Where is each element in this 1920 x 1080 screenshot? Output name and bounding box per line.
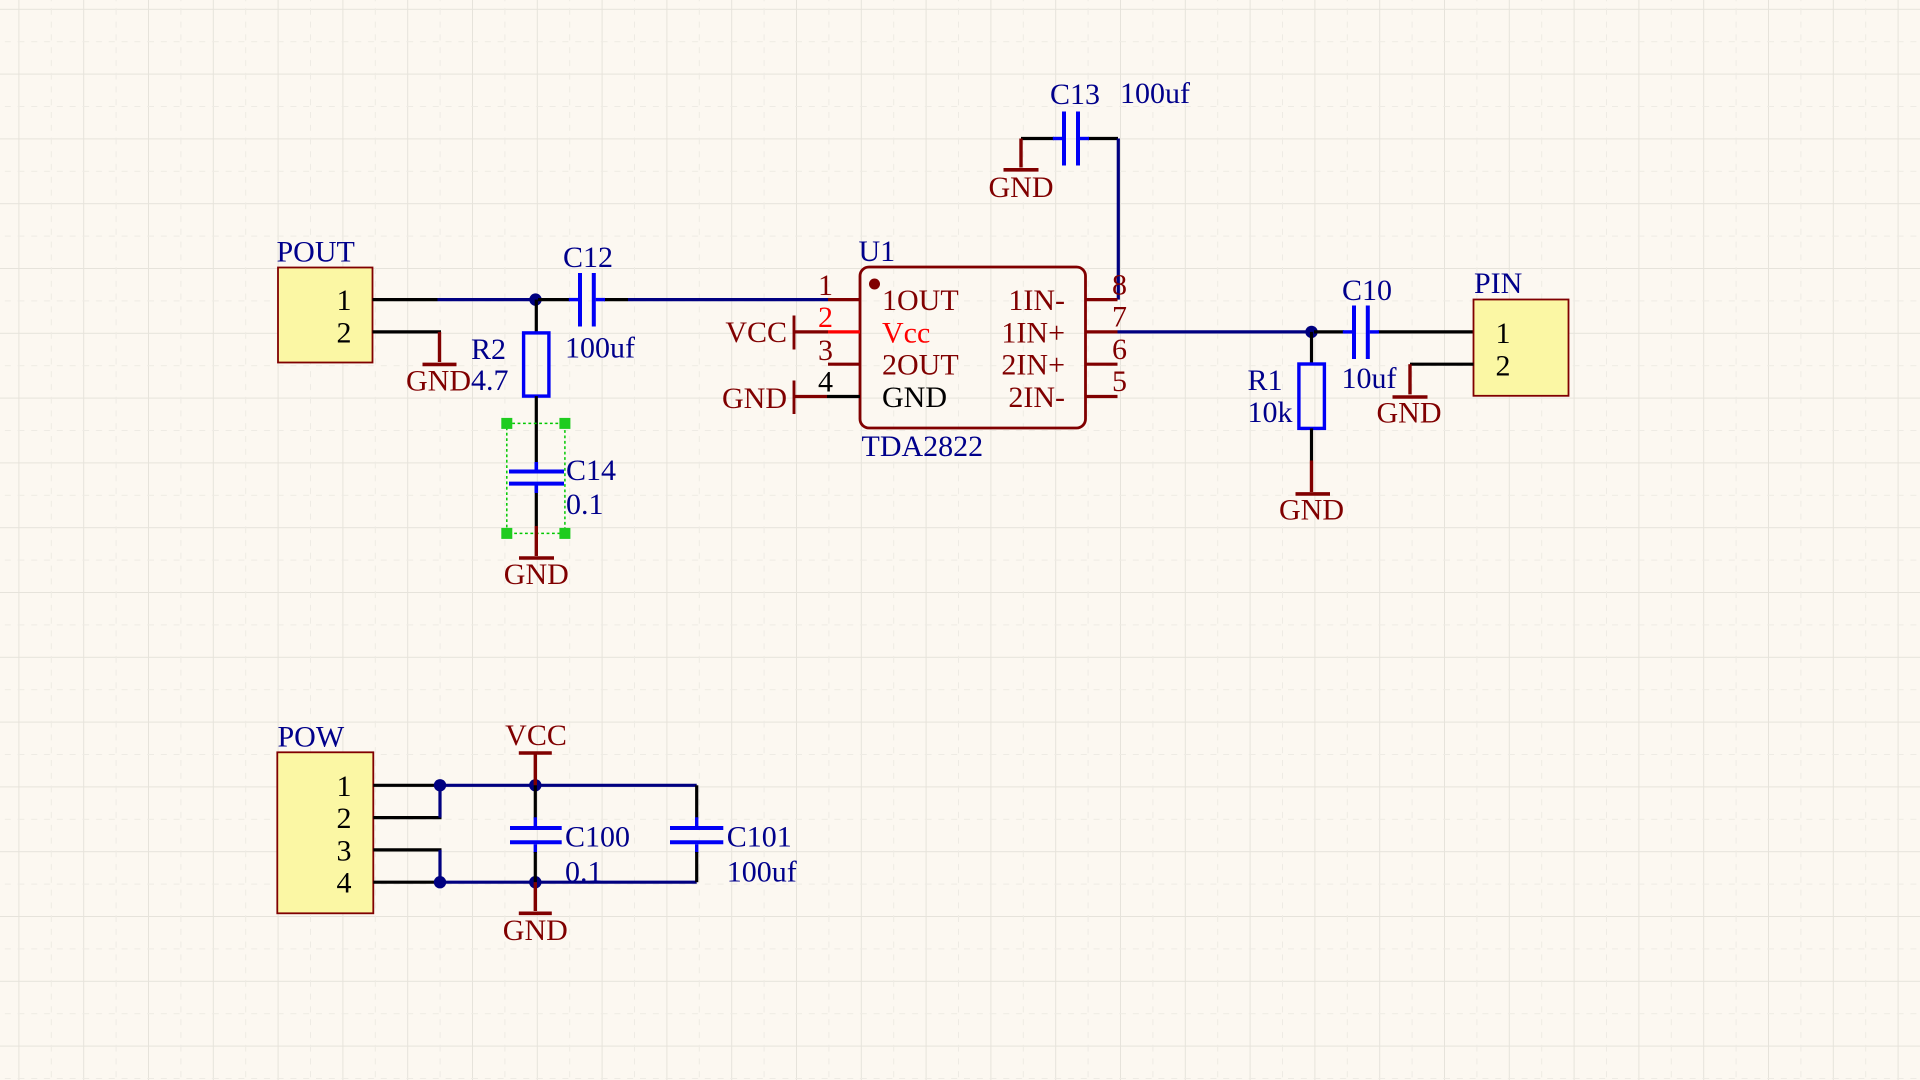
op-amp IC U1 TDA2822 [859, 235, 1086, 463]
svg-text:7: 7 [1112, 301, 1127, 334]
svg-text:C101: C101 [727, 821, 792, 854]
svg-text:C10: C10 [1342, 274, 1392, 307]
svg-text:5: 5 [1112, 365, 1127, 398]
U1 pin 1 [818, 269, 959, 317]
node junction VCC/C100 top [529, 779, 541, 791]
wire POW pin3 to pin4 [438, 850, 441, 882]
ground GND (POUT pin 2) [406, 332, 471, 398]
power port VCC (bottom) [505, 719, 567, 785]
ground GND (C13) [989, 139, 1054, 205]
capacitor C13 [1021, 112, 1118, 166]
resistor R1 [1299, 332, 1325, 461]
U1 pin 7 [1001, 301, 1127, 350]
svg-text:1OUT: 1OUT [882, 284, 959, 317]
svg-text:GND: GND [989, 171, 1054, 204]
wire GND rail (bottom) [440, 881, 697, 884]
capacitor C100 [510, 785, 562, 882]
svg-text:0.1: 0.1 [565, 856, 603, 889]
svg-text:C12: C12 [563, 241, 613, 274]
svg-text:GND: GND [882, 381, 947, 414]
node junction POW pin1 [434, 779, 446, 791]
svg-text:GND: GND [406, 365, 471, 398]
svg-text:10k: 10k [1248, 396, 1293, 429]
svg-text:R2: R2 [471, 333, 506, 366]
wire C13 to U1 pin 8 [1117, 139, 1120, 300]
connector POW [277, 721, 441, 914]
svg-text:POW: POW [278, 721, 345, 754]
wire U1 pin 7 to junction [1118, 330, 1312, 333]
svg-text:GND: GND [503, 914, 568, 947]
svg-text:3: 3 [818, 334, 833, 367]
capacitor C101 [670, 785, 723, 882]
svg-text:VCC: VCC [725, 316, 787, 349]
ground port GND (U1 pin 4) [722, 381, 827, 416]
U1 pin 4 [818, 366, 947, 414]
svg-text:1: 1 [337, 770, 352, 803]
svg-text:POUT: POUT [277, 236, 355, 269]
svg-text:1IN-: 1IN- [1008, 284, 1065, 317]
capacitor C12 [538, 273, 628, 327]
svg-text:2IN-: 2IN- [1008, 381, 1065, 414]
node junction GND/C100 bottom [529, 876, 541, 888]
svg-text:8: 8 [1112, 269, 1127, 302]
power port VCC (U1 pin 2) [725, 316, 828, 350]
ground GND (bottom rail) [503, 882, 568, 947]
node junction at C12/R2 [529, 293, 541, 305]
svg-text:C13: C13 [1050, 78, 1100, 111]
svg-text:100uf: 100uf [727, 856, 797, 889]
wire POUT pin1 to junction [438, 298, 536, 301]
ground GND (R1) [1279, 461, 1344, 527]
svg-text:1: 1 [337, 284, 352, 317]
svg-text:1IN+: 1IN+ [1001, 316, 1065, 349]
svg-text:GND: GND [1377, 397, 1442, 430]
svg-text:2: 2 [337, 802, 352, 835]
svg-text:2: 2 [337, 316, 352, 349]
wire C12 to U1 pin 1 [628, 298, 828, 301]
wire VCC rail (top) [440, 784, 697, 787]
svg-text:10uf: 10uf [1342, 362, 1397, 395]
U1 pin 5 [1008, 365, 1127, 414]
svg-text:1: 1 [818, 269, 833, 302]
svg-text:4: 4 [818, 366, 833, 399]
svg-text:2: 2 [818, 301, 833, 334]
svg-text:3: 3 [337, 834, 352, 867]
ground GND (C14) [504, 526, 569, 591]
U1 pin 8 [1008, 269, 1127, 318]
svg-text:2IN+: 2IN+ [1001, 349, 1065, 382]
capacitor C10 [1314, 306, 1474, 360]
svg-text:6: 6 [1112, 333, 1127, 366]
selection box around C14 [501, 418, 570, 539]
svg-text:VCC: VCC [505, 719, 567, 752]
svg-text:GND: GND [1279, 494, 1344, 527]
node junction POW pin4 [434, 876, 446, 888]
svg-text:GND: GND [722, 382, 787, 415]
svg-text:100uf: 100uf [1120, 77, 1190, 110]
svg-text:GND: GND [504, 558, 569, 591]
svg-text:1: 1 [1496, 317, 1511, 350]
svg-text:U1: U1 [859, 235, 896, 268]
svg-text:TDA2822: TDA2822 [862, 430, 984, 463]
wire POW pin2 to pin1 [438, 785, 441, 817]
connector POUT [277, 236, 442, 363]
svg-text:0.1: 0.1 [566, 488, 604, 521]
U1 pin 2 [818, 301, 930, 349]
ground GND (PIN pin 2) [1377, 364, 1442, 429]
svg-text:PIN: PIN [1474, 267, 1522, 300]
U1 pin 3 [818, 334, 959, 382]
svg-text:R1: R1 [1248, 364, 1283, 397]
svg-text:Vcc: Vcc [882, 316, 930, 349]
connector PIN [1410, 267, 1569, 396]
svg-text:2: 2 [1496, 349, 1511, 382]
svg-text:C100: C100 [565, 821, 630, 854]
svg-text:100uf: 100uf [565, 332, 635, 365]
svg-text:C14: C14 [566, 454, 616, 487]
U1 pin 6 [1001, 333, 1127, 382]
svg-text:2OUT: 2OUT [882, 349, 959, 382]
capacitor C14 [509, 462, 564, 526]
resistor R2 [524, 300, 549, 462]
svg-text:4.7: 4.7 [471, 364, 509, 397]
svg-text:4: 4 [337, 867, 352, 900]
node junction at C10/R1 [1305, 326, 1317, 338]
